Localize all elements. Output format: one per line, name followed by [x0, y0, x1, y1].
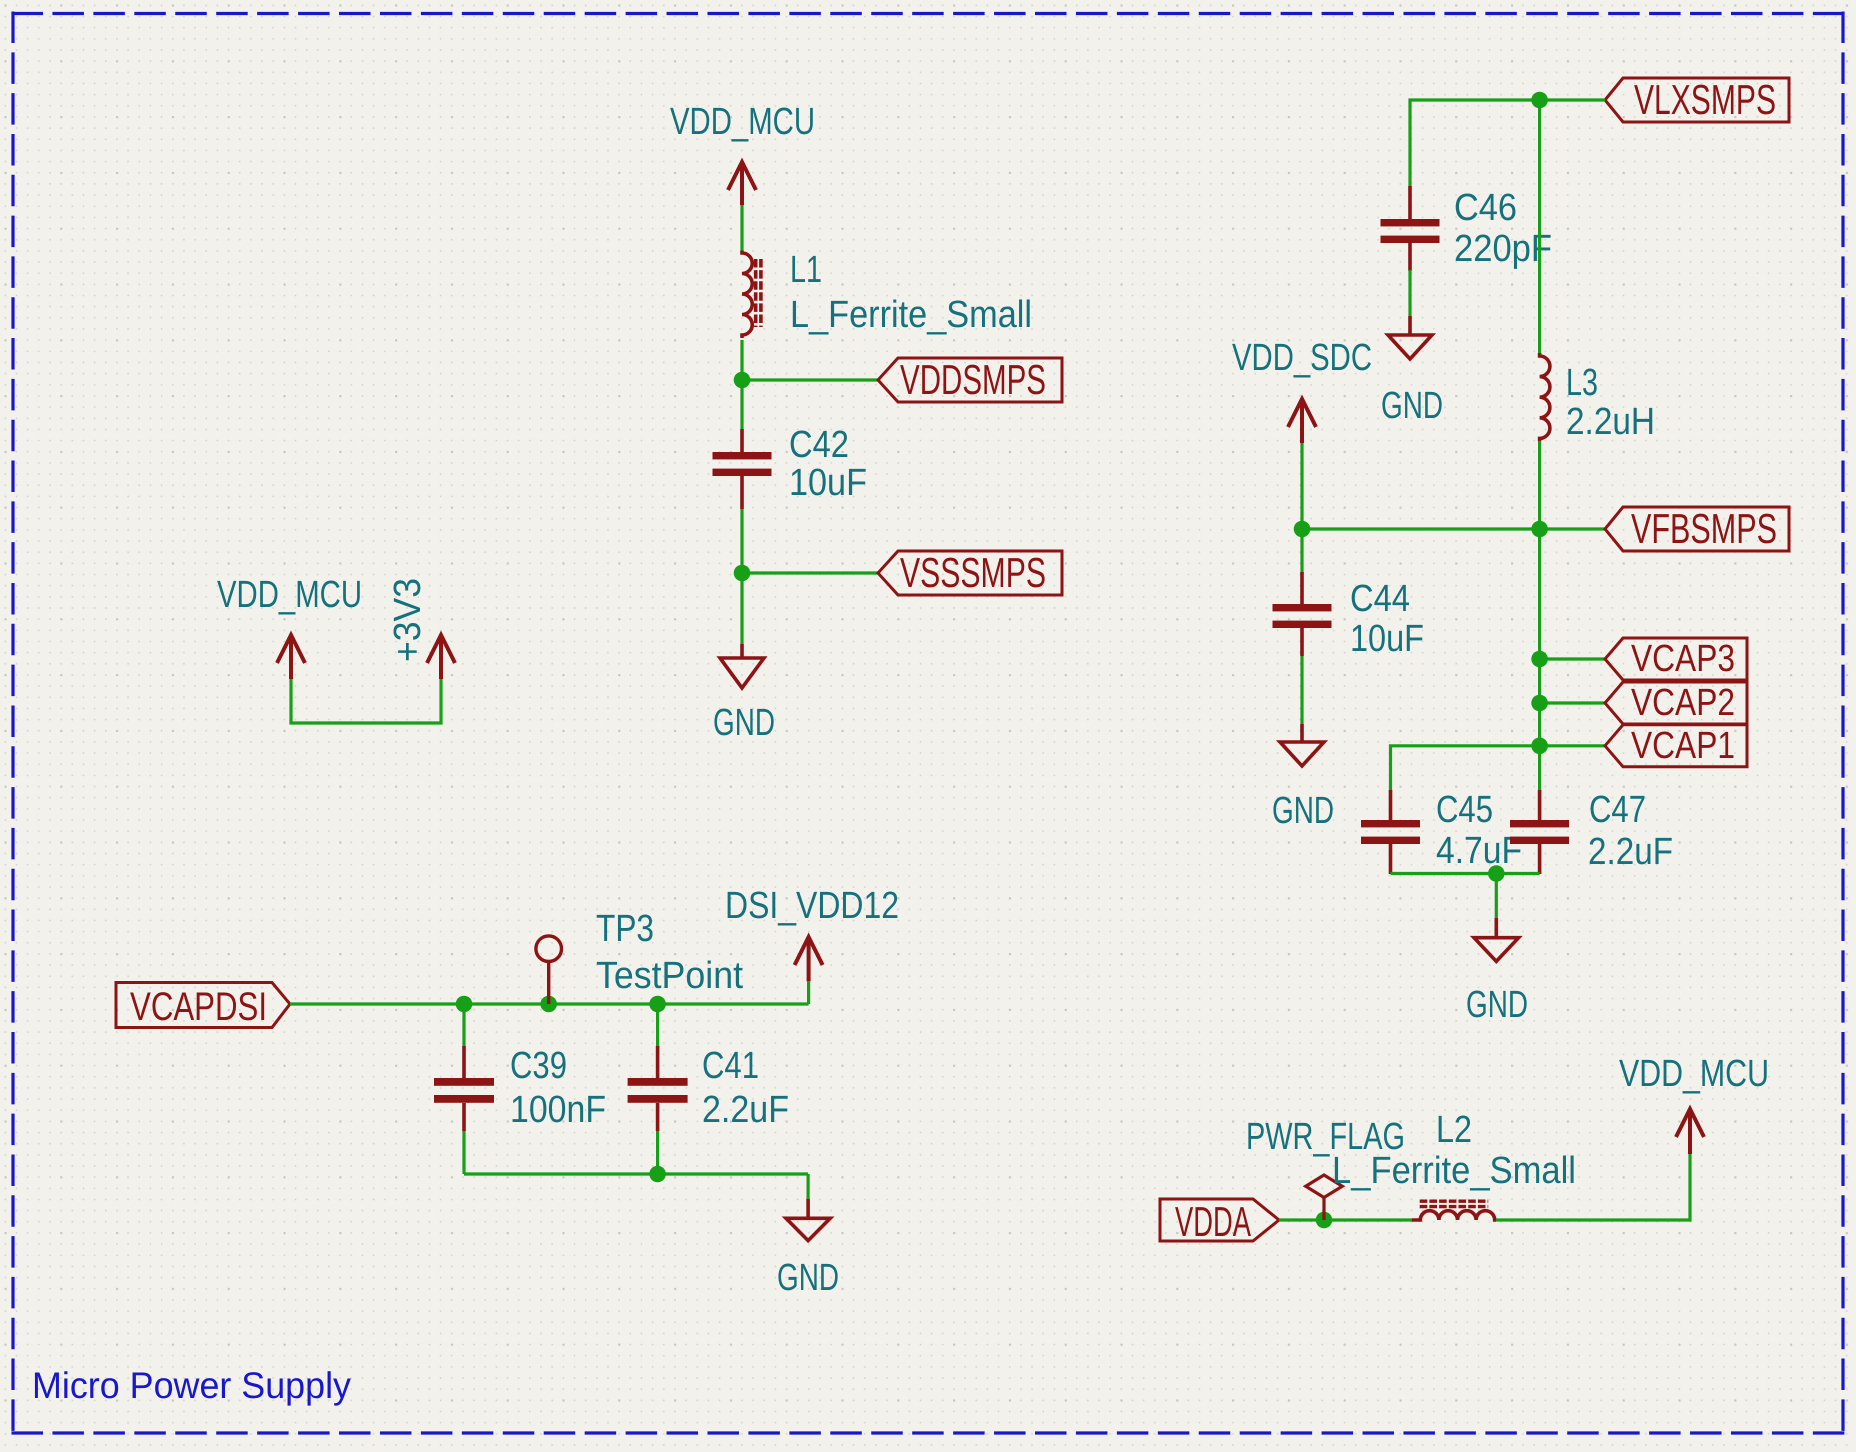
wire to VCAP3: [1540, 657, 1605, 660]
capacitor C42: [713, 429, 772, 509]
svg-text:2.2uH: 2.2uH: [1566, 401, 1655, 443]
junction C39 top: [456, 996, 473, 1013]
junction VCAP3: [1531, 651, 1548, 668]
wire junction to VSSSMPS: [742, 571, 878, 574]
wire L3 column down through VCAP junctions: [1538, 529, 1541, 791]
inductor L2: [1412, 1211, 1496, 1220]
svg-text:100nF: 100nF: [510, 1089, 606, 1131]
testpoint TP3: [536, 936, 562, 1004]
svg-text:VDD_MCU: VDD_MCU: [1619, 1053, 1769, 1095]
svg-text:C47: C47: [1589, 789, 1646, 831]
hierarchical label VCAP2: [1605, 682, 1747, 724]
svg-text:C42: C42: [789, 424, 849, 466]
svg-text:GND: GND: [1272, 790, 1334, 832]
junction PWR_FLAG: [1316, 1212, 1333, 1229]
wire L3 to VFBSMPS junction: [1538, 441, 1541, 529]
inductor L2 ferrite dashes: [1420, 1201, 1489, 1206]
capacitor C47: [1510, 790, 1569, 874]
wire C41 lead bottom: [656, 1131, 659, 1174]
svg-text:GND: GND: [713, 702, 775, 744]
svg-text:GND: GND: [1381, 385, 1443, 427]
wire VDDA to L2: [1279, 1218, 1412, 1221]
junction at VFBSMPS/L3 column: [1531, 521, 1548, 538]
hierarchical label VFBSMPS: [1605, 505, 1789, 552]
power symbol VDD_MCU (left): [277, 635, 305, 679]
wire VDD_SDC to junction: [1300, 443, 1303, 529]
junction rail C41: [649, 1166, 666, 1183]
wire C42 to junction: [740, 509, 743, 573]
capacitor C46: [1381, 186, 1440, 271]
wire rail to GND: [806, 1174, 809, 1199]
hierarchical label VSSSMPS: [878, 549, 1062, 596]
svg-text:VDD_SDC: VDD_SDC: [1232, 337, 1372, 379]
hierarchical label VLXSMPS: [1605, 76, 1789, 123]
wire VLXSMPS to corner: [1410, 100, 1605, 187]
svg-text:10uF: 10uF: [789, 462, 867, 504]
wire bracket VDD_MCU to +3V3: [291, 679, 441, 723]
wire VCAPDSI row: [290, 1002, 809, 1005]
power symbol VDD_MCU (top): [728, 162, 756, 205]
junction TP3: [540, 996, 557, 1013]
wire junction to GND: [740, 573, 743, 644]
svg-text:VCAP2: VCAP2: [1631, 682, 1735, 724]
wire junction to C42: [740, 380, 743, 431]
wire L1 to junction: [740, 340, 743, 380]
svg-text:L3: L3: [1566, 362, 1598, 404]
ground symbol (C39/C41): [786, 1199, 830, 1241]
svg-text:L_Ferrite_Small: L_Ferrite_Small: [790, 294, 1032, 336]
wire junction to C44: [1300, 529, 1303, 574]
wire VDD_MCU to L1: [740, 205, 743, 252]
ground symbol (C45/C47): [1474, 918, 1519, 961]
junction VCAP1: [1531, 738, 1548, 755]
wire DSI_VDD12 drop: [807, 981, 810, 1004]
svg-text:220pF: 220pF: [1454, 228, 1552, 270]
svg-text:VDDSMPS: VDDSMPS: [900, 356, 1046, 403]
hierarchical label VDDA: [1160, 1198, 1279, 1245]
junction VCAP2: [1531, 695, 1548, 712]
svg-text:VFBSMPS: VFBSMPS: [1631, 505, 1777, 552]
hierarchical label VCAP3: [1605, 638, 1747, 680]
junction at VLXSMPS/L3: [1531, 92, 1548, 109]
svg-text:GND: GND: [777, 1257, 839, 1299]
svg-text:2.2uF: 2.2uF: [702, 1089, 789, 1131]
hierarchical label VDDSMPS: [878, 356, 1062, 403]
svg-text:TP3: TP3: [596, 908, 654, 950]
wire rail to GND: [1495, 874, 1498, 919]
wire C41 lead top: [656, 1004, 659, 1047]
svg-text:10uF: 10uF: [1350, 618, 1424, 660]
svg-text:L1: L1: [790, 249, 822, 291]
svg-text:+3V3: +3V3: [387, 578, 429, 662]
capacitor C45: [1361, 790, 1420, 874]
inductor L3: [1540, 353, 1550, 441]
wire rail C45 to C47: [1391, 872, 1540, 875]
svg-text:C46: C46: [1454, 187, 1517, 229]
svg-text:VCAP3: VCAP3: [1631, 638, 1735, 680]
svg-text:VSSSMPS: VSSSMPS: [900, 549, 1046, 596]
capacitor C44: [1273, 572, 1332, 656]
svg-text:VCAPDSI: VCAPDSI: [130, 985, 267, 1029]
wire bottom rail C39/C41: [464, 1172, 808, 1175]
power flag PWR_FLAG: [1306, 1175, 1343, 1220]
wire VFBSMPS row: [1302, 527, 1605, 530]
svg-text:L_Ferrite_Small: L_Ferrite_Small: [1332, 1150, 1576, 1192]
junction GND rail: [1488, 865, 1505, 882]
power symbol VDD_MCU (bottom right): [1676, 1109, 1704, 1154]
svg-text:GND: GND: [1466, 984, 1528, 1026]
capacitor C39: [434, 1046, 494, 1131]
ground symbol (C46): [1388, 316, 1432, 359]
svg-text:VDD_MCU: VDD_MCU: [217, 574, 362, 616]
junction at L1/C42/VDDSMPS: [734, 372, 751, 389]
svg-text:C44: C44: [1350, 578, 1410, 620]
wire to VCAP2: [1540, 701, 1605, 704]
junction at VDD_SDC/C44/VFBSMPS: [1294, 521, 1311, 538]
svg-text:C45: C45: [1436, 789, 1493, 831]
capacitor C41: [628, 1046, 688, 1131]
power symbol DSI_VDD12: [795, 937, 823, 981]
power symbol +3V3: [427, 635, 455, 679]
power symbol VDD_SDC: [1288, 399, 1316, 443]
svg-text:VDD_MCU: VDD_MCU: [670, 101, 815, 143]
inductor L1: [742, 251, 752, 338]
svg-text:TestPoint: TestPoint: [596, 955, 743, 997]
wire C39 lead bottom: [462, 1131, 465, 1174]
junction at C42/VSSSMPS: [734, 565, 751, 582]
wire C44 to GND: [1300, 656, 1303, 724]
hierarchical label VCAP1: [1605, 725, 1747, 767]
ground symbol (C42): [720, 644, 764, 688]
svg-text:VLXSMPS: VLXSMPS: [1634, 76, 1776, 123]
svg-text:DSI_VDD12: DSI_VDD12: [725, 885, 899, 927]
svg-text:C39: C39: [510, 1045, 567, 1087]
wire VCAP1 row to C45: [1391, 746, 1540, 792]
svg-text:C41: C41: [702, 1045, 759, 1087]
svg-text:L2: L2: [1436, 1109, 1472, 1151]
inductor L1 ferrite dashes: [756, 259, 761, 327]
wire L2 to VDD_MCU corner: [1496, 1154, 1690, 1220]
ground symbol (C44): [1280, 724, 1324, 766]
wire to VCAP1: [1540, 744, 1605, 747]
wire junction to VDDSMPS: [742, 378, 878, 381]
svg-text:2.2uF: 2.2uF: [1588, 831, 1673, 873]
svg-text:VDDA: VDDA: [1175, 1198, 1251, 1245]
junction C41 top: [649, 996, 666, 1013]
wire C46 to GND: [1408, 270, 1411, 316]
hierarchical label VCAPDSI: [116, 983, 290, 1030]
svg-text:4.7uF: 4.7uF: [1436, 830, 1522, 872]
wire C39 lead top: [462, 1004, 465, 1047]
wire VLXSMPS junction down to L3: [1538, 100, 1541, 354]
svg-text:VCAP1: VCAP1: [1631, 725, 1735, 767]
svg-text:Micro Power Supply: Micro Power Supply: [32, 1365, 351, 1406]
